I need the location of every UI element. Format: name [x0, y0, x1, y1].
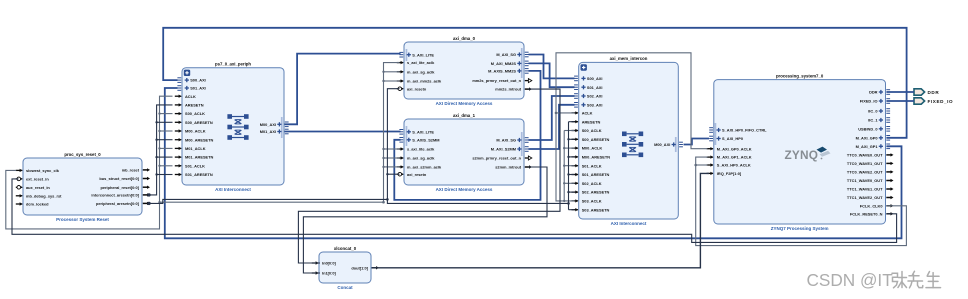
svg-text:S01_ACLK: S01_ACLK	[185, 163, 205, 168]
svg-text:dcm_locked: dcm_locked	[26, 202, 49, 207]
pin m_axi_sg_aclk.1	[397, 156, 436, 161]
pin S_AXI_HP0_ACLK	[707, 163, 751, 168]
wire mem_intercon clock column	[563, 131, 575, 203]
svg-text:M01_ACLK: M01_ACLK	[185, 146, 206, 151]
svg-text:S00_ARESETN: S00_ARESETN	[582, 137, 610, 142]
svg-text:S_AXI_LITE: S_AXI_LITE	[412, 129, 434, 134]
svg-text:M_AXI_S2MM: M_AXI_S2MM	[491, 147, 516, 152]
pin mem.S03_ARESETN	[572, 207, 610, 212]
svg-text:AXI Direct Memory Access: AXI Direct Memory Access	[436, 101, 493, 106]
pin S_AXI_HP0	[709, 136, 743, 141]
svg-text:axi_mem_intercon: axi_mem_intercon	[610, 56, 648, 61]
svg-text:S00_ACLK: S00_ACLK	[185, 111, 205, 116]
pin IRQ_F2P[1:0]	[707, 171, 742, 176]
svg-text:M_AXI_MM2S: M_AXI_MM2S	[491, 61, 517, 66]
pin mem.S00_ACLK	[572, 128, 602, 133]
pin In1	[312, 271, 337, 276]
pin dcm_locked	[16, 202, 49, 207]
pin mm2s_prmry_reset_out_n	[472, 78, 531, 83]
pin M01_ARESETN	[175, 155, 214, 160]
block ps7_0_axi_periph	[182, 62, 284, 193]
svg-text:M_AXI_SG: M_AXI_SG	[496, 52, 516, 57]
svg-text:mm2s_prmry_reset_out_n: mm2s_prmry_reset_out_n	[472, 78, 521, 83]
pin M_AXI_S2MM	[491, 147, 529, 152]
pin ps.TTC1_WAVE2_OUT	[847, 195, 894, 200]
svg-text:S_AXIS_S2MM: S_AXIS_S2MM	[412, 137, 439, 142]
svg-text:S00_ARESETN: S00_ARESETN	[185, 120, 213, 125]
wire mm2s_introut to In0	[298, 89, 560, 263]
wire peripheral_aresetn run	[149, 199, 388, 203]
pin mem.S02_ARESETN	[572, 190, 610, 195]
svg-text:slowest_sync_clk: slowest_sync_clk	[26, 168, 60, 173]
ZYNQ logo	[785, 147, 831, 162]
pin ps.FCLK_RESET0_N	[850, 211, 894, 216]
pin peripheral_reset	[101, 185, 151, 190]
pin mem.S01_ACLK	[572, 163, 602, 168]
svg-text:USBIND_0: USBIND_0	[858, 126, 877, 131]
svg-text:S03_ARESETN: S03_ARESETN	[582, 207, 610, 212]
wire clock spine left + slowest_sync_clk	[6, 96, 384, 229]
svg-text:DDR: DDR	[928, 90, 940, 95]
svg-text:S02_ARESETN: S02_ARESETN	[582, 190, 610, 195]
svg-text:M_AXI_GP1: M_AXI_GP1	[856, 144, 879, 149]
svg-text:axi_dma_1: axi_dma_1	[453, 113, 476, 118]
wire axi_dma_1 M_AXI_S2MM to S03_AXI	[529, 105, 575, 149]
pin m_axi_s2mm_aclk.1	[397, 165, 442, 170]
pin S_AXIS_S2MM	[399, 137, 439, 142]
svg-text:S_AXI_HP0_FIFO_CTRL: S_AXI_HP0_FIFO_CTRL	[722, 128, 767, 133]
pin mem.S02_AXI	[574, 94, 602, 99]
svg-text:s_axi_lite_aclk: s_axi_lite_aclk	[407, 147, 435, 152]
pin ps.M_AXI_GP0	[856, 135, 890, 140]
svg-text:axi_resetn: axi_resetn	[407, 172, 427, 177]
svg-text:S_AXI_HP0: S_AXI_HP0	[722, 136, 743, 141]
pin mem.S03_AXI	[574, 102, 602, 107]
svg-text:M_AXI_GP1_ACLK: M_AXI_GP1_ACLK	[717, 155, 752, 160]
svg-text:S03_AXI: S03_AXI	[587, 102, 603, 107]
wire M_AXI_GP0 to S00_AXI (top bus)	[163, 28, 906, 138]
svg-text:AXI Interconnect: AXI Interconnect	[215, 187, 251, 192]
svg-text:M00_ARESETN: M00_ARESETN	[582, 155, 611, 160]
pin s_axi_lite_aclk.0	[397, 60, 435, 65]
pin M_AXI_GP1_ACLK	[707, 155, 752, 160]
pin mem.S01_AXI	[574, 85, 602, 90]
svg-text:dout[1:0]: dout[1:0]	[351, 265, 368, 270]
svg-text:In0[0:0]: In0[0:0]	[322, 261, 337, 266]
svg-text:mm2s_introut: mm2s_introut	[495, 87, 521, 92]
pin ps.TTC0_WAVE1_OUT	[847, 161, 894, 166]
pin mem.S02_ACLK	[572, 181, 602, 186]
block axi_mem_intercon	[579, 56, 679, 226]
block processing_system7_0	[714, 73, 886, 231]
svg-text:interconnect_aresetn[0:0]: interconnect_aresetn[0:0]	[91, 193, 139, 198]
svg-text:FIXED_IO: FIXED_IO	[928, 99, 954, 104]
pin S00_AXI	[177, 78, 205, 83]
pin ext_reset_in	[16, 177, 50, 182]
pin dout	[351, 265, 379, 270]
wire dma resetn column	[386, 89, 568, 204]
pin S01_ACLK	[175, 163, 205, 168]
svg-text:Concat: Concat	[337, 285, 353, 290]
wire axi_dma_0 M_AXI_MM2S to S01_AXI	[529, 63, 575, 87]
svg-text:TTC1_WAVE0_OUT: TTC1_WAVE0_OUT	[847, 178, 883, 183]
svg-text:mb_debug_sys_rst: mb_debug_sys_rst	[26, 193, 62, 198]
svg-text:M_AXI_SG: M_AXI_SG	[496, 138, 516, 143]
svg-text:ARESETN: ARESETN	[582, 119, 601, 124]
svg-text:TTC1_WAVE2_OUT: TTC1_WAVE2_OUT	[847, 195, 883, 200]
pin peripheral_aresetn	[96, 201, 150, 206]
svg-text:xlconcat_0: xlconcat_0	[334, 246, 357, 251]
pin mem.M00_AXI	[654, 142, 683, 147]
svg-text:In1[0:0]: In1[0:0]	[322, 271, 337, 276]
wire axi_dma_1 M_AXI_SG to S02_AXI	[529, 96, 575, 140]
svg-text:M01_AXI: M01_AXI	[260, 129, 276, 134]
svg-text:S00_AXI: S00_AXI	[190, 78, 206, 83]
svg-text:FCLK_RESET0_N: FCLK_RESET0_N	[850, 211, 883, 216]
svg-text:s2mm_prmry_reset_out_n: s2mm_prmry_reset_out_n	[472, 156, 521, 161]
pin M00_ACLK	[175, 129, 206, 134]
pin ARESETN	[175, 103, 204, 108]
svg-text:peripheral_aresetn[0:0]: peripheral_aresetn[0:0]	[96, 201, 140, 206]
pin M_AXIS_MM2S	[488, 69, 528, 74]
pin mem.M00_ACLK	[572, 146, 603, 151]
pin S00_ACLK	[175, 111, 205, 116]
wire DDR	[887, 91, 915, 93]
block axi_dma_0	[404, 36, 524, 106]
svg-text:M_AXIS_MM2S: M_AXIS_MM2S	[488, 69, 516, 74]
pin M01_ACLK	[175, 146, 206, 151]
pin interconnect_aresetn	[91, 193, 150, 198]
svg-text:S02_AXI: S02_AXI	[587, 94, 603, 99]
svg-text:ACLK: ACLK	[185, 94, 196, 99]
pin ps.FIXED_IO	[860, 99, 890, 104]
pin ps.TTC1_WAVE1_OUT	[847, 187, 894, 192]
svg-text:DDR: DDR	[869, 90, 878, 95]
pin ps.IIC_0	[868, 109, 890, 114]
pin M_AXI_SG.0	[496, 52, 528, 57]
svg-text:AXI Direct Memory Access: AXI Direct Memory Access	[436, 187, 493, 192]
pin S01_AXI	[177, 86, 205, 91]
svg-text:IIC_1: IIC_1	[868, 118, 878, 123]
svg-text:Processor System Reset: Processor System Reset	[56, 217, 109, 222]
svg-text:ps7_0_axi_periph: ps7_0_axi_periph	[215, 62, 251, 67]
svg-text:M00_AXI: M00_AXI	[260, 122, 276, 127]
pin mm2s_introut	[495, 87, 532, 92]
wire clock top loop to M_AXI_GP0_ACLK	[555, 53, 708, 201]
svg-text:M_AXI_GP0_ACLK: M_AXI_GP0_ACLK	[717, 146, 752, 151]
wire FIXED_IO	[887, 100, 915, 102]
svg-text:axi_dma_0: axi_dma_0	[453, 36, 476, 41]
pin slowest_sync_clk	[16, 168, 60, 173]
svg-text:M00_ACLK: M00_ACLK	[185, 129, 206, 134]
svg-text:M00_ARESETN: M00_ARESETN	[185, 137, 214, 142]
svg-text:ZYNQ7 Processing System: ZYNQ7 Processing System	[771, 226, 829, 231]
external port DDR	[914, 89, 939, 95]
wire FCLK_CLK0 main run	[694, 157, 906, 246]
svg-text:ARESETN: ARESETN	[185, 103, 204, 108]
pin mb_debug_sys_rst	[16, 193, 62, 198]
svg-text:CSDN @IT: CSDN @IT	[807, 270, 894, 290]
svg-text:M01_ARESETN: M01_ARESETN	[185, 155, 214, 160]
pin mem.S00_ARESETN	[572, 137, 610, 142]
pin S01_ARESETN	[175, 172, 213, 177]
svg-text:peripheral_reset[0:0]: peripheral_reset[0:0]	[101, 185, 140, 190]
svg-text:S00_AXI: S00_AXI	[587, 76, 603, 81]
svg-text:m_axi_s2mm_aclk: m_axi_s2mm_aclk	[407, 165, 442, 170]
svg-text:proc_sys_reset_0: proc_sys_reset_0	[64, 152, 101, 157]
pin M00_AXI	[260, 122, 289, 127]
svg-text:M00_AXI: M00_AXI	[654, 142, 670, 147]
pin ps.USBIND_0	[858, 126, 890, 131]
svg-text:FIXED_IO: FIXED_IO	[860, 99, 878, 104]
pin ACLK	[175, 94, 196, 99]
wire mem_intercon M00_AXI to S_AXI_HP0	[684, 139, 710, 145]
pin m_axi_sg_aclk.0	[397, 69, 436, 74]
svg-text:m_axi_mm2s_aclk: m_axi_mm2s_aclk	[407, 79, 442, 84]
pin ps.M_AXI_GP1	[856, 144, 890, 149]
pin s_axi_lite_aclk.1	[397, 147, 435, 152]
svg-text:aux_reset_in: aux_reset_in	[26, 185, 50, 190]
block proc_sys_reset_0	[23, 152, 142, 222]
svg-text:mb_reset: mb_reset	[122, 168, 140, 173]
pin mem.S00_AXI	[574, 76, 602, 81]
pin S_AXI_LITE.1	[399, 129, 434, 134]
svg-text:S00_ACLK: S00_ACLK	[582, 128, 602, 133]
svg-text:ACLK: ACLK	[582, 111, 593, 116]
pin aux_reset_in	[16, 185, 51, 190]
svg-text:IRQ_F2P[1:0]: IRQ_F2P[1:0]	[717, 171, 742, 176]
pin ps.IIC_1	[868, 118, 890, 123]
wire axi_dma_0 M_AXIS_MM2S to axi_dma_1 S_AXIS_S2MM	[394, 71, 540, 200]
pin bus_struct_reset	[99, 176, 150, 181]
pin In0	[312, 261, 337, 266]
watermark CSDN	[807, 270, 941, 290]
wire s2mm_introut to In1	[303, 167, 547, 273]
svg-text:TTC0_WAVE1_OUT: TTC0_WAVE1_OUT	[847, 161, 883, 166]
pin S_AXI_LITE.0	[399, 52, 434, 57]
wire interconnect_aresetn column	[149, 105, 173, 195]
pin M_AXI_SG.1	[496, 138, 528, 143]
svg-text:s_axi_lite_aclk: s_axi_lite_aclk	[407, 60, 435, 65]
svg-text:ZYNQ: ZYNQ	[785, 148, 819, 162]
svg-text:S03_ACLK: S03_ACLK	[582, 199, 602, 204]
svg-text:S02_ACLK: S02_ACLK	[582, 181, 602, 186]
svg-text:M_AXI_GP0: M_AXI_GP0	[856, 135, 878, 140]
svg-text:S_AXI_HP0_ACLK: S_AXI_HP0_ACLK	[717, 163, 751, 168]
wire M00_AXI to axi_dma_0 S_AXI_LITE	[285, 54, 401, 125]
svg-text:m_axi_sg_aclk: m_axi_sg_aclk	[407, 69, 435, 74]
svg-text:AXI Interconnect: AXI Interconnect	[611, 221, 647, 226]
pin axi_resetn.1	[397, 172, 427, 177]
pin s2mm_introut	[495, 165, 532, 170]
svg-text:S_AXI_LITE: S_AXI_LITE	[412, 52, 434, 57]
pin ps.DDR	[869, 90, 890, 95]
svg-text:S01_ACLK: S01_ACLK	[582, 163, 602, 168]
svg-text:TTC0_WAVE2_OUT: TTC0_WAVE2_OUT	[847, 170, 883, 175]
svg-text:s2mm_introut: s2mm_introut	[495, 165, 521, 170]
pin S_AXI_HP0_FIFO_CTRL	[709, 128, 767, 133]
pin ps.TTC0_WAVE0_OUT	[847, 153, 894, 158]
svg-text:TTC1_WAVE1_OUT: TTC1_WAVE1_OUT	[847, 187, 883, 192]
block xlconcat_0	[319, 246, 371, 290]
pin mem.M00_ARESETN	[572, 155, 611, 160]
wire mem_intercon resetn column	[567, 122, 574, 210]
pin mem.ARESETN	[572, 119, 601, 124]
pin mem.S01_ARESETN	[572, 172, 610, 177]
pin mb_reset	[122, 168, 150, 173]
svg-text:TTC0_WAVE0_OUT: TTC0_WAVE0_OUT	[847, 153, 883, 158]
svg-text:IIC_0: IIC_0	[868, 109, 877, 114]
svg-text:processing_system7_0: processing_system7_0	[776, 73, 824, 78]
pin M00_ARESETN	[175, 137, 214, 142]
pin M_AXI_GP0_ACLK	[707, 146, 752, 151]
svg-text:m_axi_sg_aclk: m_axi_sg_aclk	[407, 156, 435, 161]
wire M01_AXI to axi_dma_1 S_AXI_LITE	[285, 131, 401, 133]
pin S00_ARESETN	[175, 120, 213, 125]
pin ps.TTC1_WAVE0_OUT	[847, 178, 894, 183]
wire FCLK_RESET0_N to ext_reset_in	[12, 179, 897, 243]
wire dma clock column	[382, 63, 399, 204]
pin mem.ACLK	[572, 111, 593, 116]
pin ps.FCLK_CLK0	[860, 203, 894, 208]
svg-text:ext_reset_in: ext_reset_in	[26, 177, 49, 182]
interface sidebar strips	[281, 48, 716, 156]
svg-text:S01_ARESETN: S01_ARESETN	[582, 172, 610, 177]
pin M_AXI_MM2S	[491, 61, 529, 66]
pin axi_resetn.0	[397, 86, 427, 91]
svg-text:M00_ACLK: M00_ACLK	[582, 146, 603, 151]
svg-text:S01_AXI: S01_AXI	[190, 86, 206, 91]
pin s2mm_prmry_reset_out_n	[472, 156, 531, 161]
wire axi_dma_0 M_AXI_SG to S00_AXI	[529, 55, 575, 79]
svg-text:S01_ARESETN: S01_ARESETN	[185, 172, 213, 177]
pin m_axi_mm2s_aclk.0	[397, 79, 442, 84]
pin M01_AXI	[260, 129, 289, 134]
pin mem.S03_ACLK	[572, 199, 602, 204]
svg-text:axi_resetn: axi_resetn	[407, 86, 427, 91]
wire M_AXI_GP1 to S01_AXI (bottom bus)	[165, 88, 902, 238]
svg-text:bus_struct_reset[0:0]: bus_struct_reset[0:0]	[99, 176, 139, 181]
svg-text:S01_AXI: S01_AXI	[587, 85, 603, 90]
block axi_dma_1	[404, 113, 524, 192]
pin ps.TTC0_WAVE2_OUT	[847, 170, 894, 175]
svg-text:FCLK_CLK0: FCLK_CLK0	[860, 203, 883, 208]
external port FIXED_IO	[914, 98, 953, 104]
wire dout to IRQ_F2P	[372, 173, 710, 267]
